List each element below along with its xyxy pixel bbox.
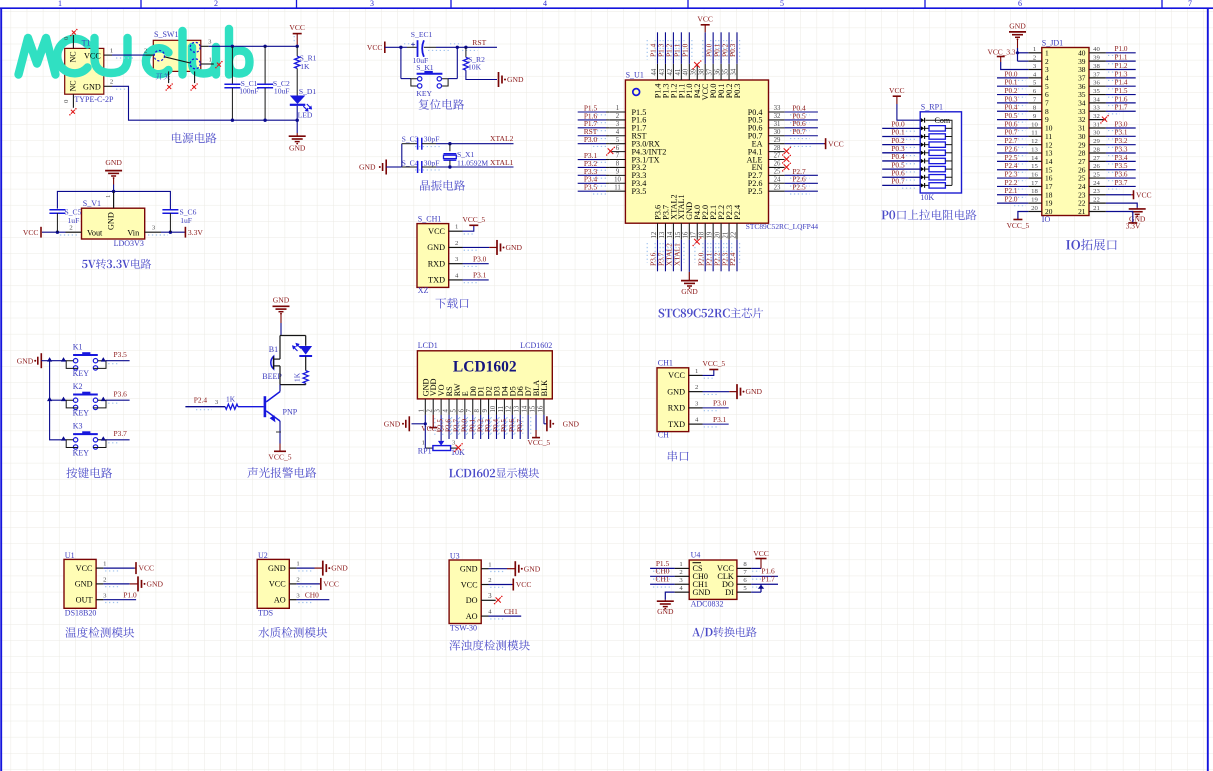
U1 pin 18 P2.0: [695, 205, 710, 271]
svg-text:GND: GND: [507, 75, 524, 84]
JD1 pin 7: [997, 95, 1049, 107]
svg-text:14: 14: [1031, 155, 1038, 162]
U1 pin 7 P3.1/TX: [578, 151, 660, 164]
JD1 pin 6: [997, 87, 1049, 99]
svg-text:P0.4: P0.4: [1005, 104, 1018, 112]
svg-text:P3.6: P3.6: [114, 389, 128, 398]
ground GND JD1 top: [1009, 22, 1028, 62]
svg-text:CH1: CH1: [504, 607, 518, 616]
U3 pin 4 AO net CH1: [481, 607, 521, 619]
power VCC LDO: [23, 227, 41, 238]
JD1 pin 32: [1078, 113, 1109, 124]
svg-text:P2.3: P2.3: [1005, 170, 1018, 178]
U1 pin 36 P0.1: [711, 32, 726, 98]
svg-text:P0.7: P0.7: [891, 177, 905, 186]
svg-text:B1: B1: [269, 345, 278, 354]
svg-text:VCC: VCC: [76, 564, 93, 573]
key K1: [61, 342, 106, 378]
U1 pin 1 P1.5: [578, 103, 647, 116]
wire LCD pin 10 net P0.3: [482, 415, 499, 439]
JD1 pin 36: [1078, 79, 1136, 91]
svg-text:18: 18: [1031, 188, 1038, 195]
svg-text:P3.0: P3.0: [473, 254, 487, 263]
U4 pin 6 DO wire: [737, 575, 778, 587]
CH1 pin 1 VCC wire: [689, 368, 714, 378]
JD1 pin 13: [997, 145, 1053, 157]
U1 pin 12 P3.6: [647, 205, 662, 271]
JD1 pin 19: [997, 196, 1053, 208]
svg-text:3: 3: [435, 409, 442, 413]
svg-text:GND: GND: [524, 564, 541, 573]
IC U1 DS18B20 body: [64, 551, 96, 618]
svg-text:P1.0: P1.0: [681, 43, 690, 57]
svg-text:P3.0: P3.0: [584, 135, 598, 144]
svg-text:11: 11: [1031, 130, 1037, 137]
U1 pin 21 P2.3: [719, 205, 734, 271]
wire LCD pin 9 net P0.2: [474, 415, 491, 439]
capacitor S_C4 30pF: [402, 159, 440, 173]
wire K1 to P3.5: [106, 350, 130, 364]
svg-text:K1: K1: [73, 342, 83, 351]
LCD pin 11 D4: [498, 386, 510, 415]
svg-text:VCC_5: VCC_5: [1007, 221, 1030, 230]
title 浑浊度检测模块: [449, 640, 529, 651]
svg-text:19: 19: [707, 231, 714, 238]
svg-text:VCC: VCC: [697, 15, 713, 24]
svg-text:P2.5: P2.5: [1005, 154, 1018, 162]
capacitor S_EC1 10uF polarized: [411, 30, 433, 65]
svg-text:BEEP: BEEP: [262, 372, 282, 381]
svg-text:P0.7: P0.7: [1005, 129, 1018, 137]
svg-text:17: 17: [691, 231, 698, 238]
wire LCD pin 5 net P2.6: [443, 415, 460, 439]
wire LCD BLK right: [544, 415, 547, 424]
svg-text:27: 27: [1093, 155, 1100, 162]
wire LCD pin 14 net P0.7: [514, 415, 531, 439]
svg-text:P3.5: P3.5: [114, 350, 128, 359]
svg-text:35: 35: [722, 68, 729, 75]
JD1 pin 35: [1078, 87, 1136, 99]
power VCC chip top: [697, 15, 713, 33]
junction: [1016, 51, 1019, 54]
svg-text:GND: GND: [693, 588, 711, 597]
svg-text:2: 2: [69, 224, 72, 231]
svg-text:TXD: TXD: [668, 420, 685, 429]
svg-text:100nF: 100nF: [239, 87, 258, 96]
svg-text:GND: GND: [75, 580, 93, 589]
resistor base 1K: [185, 395, 263, 410]
svg-text:29: 29: [774, 137, 781, 144]
ground GND: [497, 240, 522, 255]
svg-text:TXD: TXD: [428, 276, 445, 285]
junction: [424, 422, 427, 425]
svg-text:8: 8: [474, 409, 481, 413]
U1 pin 10 P3.4: [578, 175, 647, 188]
U1 pin 14 XTAL2: [663, 194, 678, 271]
wire LCD GND left: [412, 415, 426, 424]
JD1 pin 1: [1028, 46, 1049, 57]
svg-text:2: 2: [296, 577, 299, 584]
junction: [56, 231, 59, 234]
title 按键电路: [66, 467, 112, 478]
title STC89C52RC主芯片: [659, 308, 764, 318]
JD1 pin 8: [997, 104, 1049, 116]
svg-text:3: 3: [488, 592, 492, 600]
svg-text:4: 4: [543, 0, 547, 8]
junction: [112, 190, 115, 193]
JD1 pin 33: [1078, 104, 1136, 116]
svg-text:P2.5: P2.5: [748, 187, 763, 196]
U1 pin 8 P3.2: [578, 159, 647, 172]
svg-text:P1.0: P1.0: [1115, 45, 1128, 53]
LCD pin 10 D3: [490, 386, 502, 415]
svg-text:P0.0: P0.0: [1005, 70, 1018, 78]
svg-text:XTAL2: XTAL2: [490, 134, 514, 143]
JD1 pin 12: [997, 137, 1053, 149]
svg-text:K2: K2: [73, 382, 83, 391]
ground GND LCD right: [547, 416, 580, 431]
RP1 resistor pin 4: [882, 136, 952, 148]
svg-text:P0.2: P0.2: [476, 419, 484, 432]
U1 pin 35 P0.2: [719, 32, 734, 98]
svg-text:GND: GND: [17, 356, 34, 365]
svg-text:28: 28: [774, 145, 781, 152]
svg-text:P0.1: P0.1: [1005, 79, 1018, 87]
svg-text:37: 37: [1093, 71, 1100, 78]
JD1 pin 20: [1028, 205, 1052, 216]
svg-text:P3.0: P3.0: [713, 399, 727, 408]
U1 pin 1 VCC vcc VCC: [96, 561, 154, 574]
switch S_SW1 contacts: [144, 30, 200, 69]
svg-text:P1.7: P1.7: [1115, 104, 1128, 112]
wire LCD VO to potentiometer: [438, 415, 444, 446]
svg-text:CH1: CH1: [656, 575, 670, 584]
svg-text:32: 32: [1093, 113, 1100, 120]
S_CH1 pin 1 VCC wire: [449, 224, 474, 234]
no-ERC cross T1 top: [70, 29, 78, 37]
JD1 pin 18: [997, 187, 1053, 199]
svg-text:2: 2: [1033, 55, 1036, 62]
svg-text:P3.7: P3.7: [1115, 179, 1128, 187]
svg-text:P0.6: P0.6: [1005, 120, 1018, 128]
svg-text:CH0: CH0: [305, 591, 319, 600]
U1 pin 22 P2.4: [727, 205, 742, 271]
svg-text:U4: U4: [691, 551, 701, 560]
LCD pin 9 D2: [482, 386, 494, 415]
switch bottom pin B: [194, 71, 196, 83]
svg-text:P0.2: P0.2: [1005, 87, 1018, 95]
resistor network S_RP1 10K body: [920, 103, 961, 203]
svg-text:2: 2: [488, 577, 491, 584]
svg-text:P3.4: P3.4: [1115, 154, 1128, 162]
svg-text:P2.4: P2.4: [194, 396, 208, 405]
svg-text:2: 2: [679, 569, 682, 576]
V1 pin 2 Vout: [42, 224, 82, 235]
svg-text:P0.3: P0.3: [733, 84, 742, 99]
svg-text:30pF: 30pF: [424, 134, 440, 143]
U4 pin 5 DI wire: [737, 584, 764, 592]
svg-text:1uF: 1uF: [68, 216, 80, 225]
svg-text:16: 16: [1031, 171, 1038, 178]
svg-text:1: 1: [488, 561, 491, 568]
svg-text:GND: GND: [106, 212, 115, 230]
svg-text:AO: AO: [466, 612, 478, 621]
no-ERC cross: [190, 83, 198, 91]
wire LCD pin 13 net P0.6: [506, 415, 523, 439]
svg-text:P3.5: P3.5: [632, 187, 647, 196]
no-ERC cross T1 bottom: [69, 108, 77, 116]
junction: [263, 45, 266, 48]
svg-text:26: 26: [1093, 163, 1100, 170]
U1 pin 34 P0.3: [727, 32, 742, 98]
svg-text:LDO3V3: LDO3V3: [114, 239, 144, 248]
U3 pin 3 DO nc: [481, 592, 502, 604]
ground GND LCD left: [384, 416, 410, 431]
svg-text:1: 1: [296, 561, 299, 568]
MCUclub logo: [19, 29, 250, 75]
JD1 pin 23: [1078, 188, 1152, 199]
svg-text:16: 16: [537, 405, 544, 412]
svg-text:9: 9: [616, 169, 620, 176]
title 声光报警电路: [247, 467, 316, 478]
key S_K1: [401, 47, 457, 98]
svg-text:LCD1602: LCD1602: [520, 341, 552, 350]
U1 pin 38 VCC: [699, 32, 711, 100]
svg-text:10: 10: [614, 176, 621, 183]
key K2: [61, 382, 106, 418]
JD1 pin 17: [997, 179, 1053, 191]
JD1 pin 40: [1078, 45, 1136, 57]
RP1 resistor pin 9: [882, 177, 952, 189]
svg-text:P0.1: P0.1: [468, 419, 476, 432]
svg-text:VCC: VCC: [889, 86, 905, 95]
capacitor S_C1 100nF: [224, 46, 258, 120]
svg-text:P2.0: P2.0: [1005, 196, 1018, 204]
wire emitter to VCC_5: [276, 421, 281, 451]
svg-text:15: 15: [675, 231, 682, 238]
svg-text:P2.1: P2.1: [1005, 187, 1018, 195]
U1 pin 41 P1.1: [671, 32, 686, 98]
JD1 pin 15: [997, 162, 1053, 174]
svg-text:6: 6: [616, 145, 620, 152]
svg-text:24: 24: [774, 176, 781, 183]
U1 pin 26 EN: [752, 161, 791, 173]
wire LCD pin 11 net P0.4: [490, 415, 507, 439]
svg-text:DI: DI: [725, 588, 734, 597]
IC S_U1 STC89C52RC_LQFP44 body: [625, 70, 818, 231]
wire XTAL1: [415, 167, 514, 170]
RP1 resistor pin 7: [882, 160, 952, 172]
svg-text:P3.3: P3.3: [1115, 145, 1128, 153]
power VCC_5 LCD BLA: [528, 415, 551, 447]
svg-text:RP1: RP1: [418, 446, 432, 455]
svg-text:P1.2: P1.2: [1115, 62, 1128, 70]
svg-text:P2.7: P2.7: [1005, 137, 1018, 145]
ground GND keys: [17, 353, 50, 368]
U1 pin 15 XTAL1: [671, 194, 686, 271]
svg-text:K3: K3: [73, 421, 83, 430]
svg-text:1: 1: [58, 0, 62, 8]
svg-text:VCC: VCC: [1136, 190, 1152, 199]
svg-text:VCC: VCC: [23, 228, 39, 237]
U2 pin 3 AO net CH0: [289, 591, 329, 603]
title 下载口: [435, 298, 468, 309]
svg-text:P3.1: P3.1: [473, 271, 487, 280]
svg-text:VCC_5: VCC_5: [268, 453, 291, 462]
U4 pin 1 wire P1.5: [650, 559, 689, 571]
title LCD1602显示模块: [449, 468, 539, 478]
svg-text:17: 17: [1031, 180, 1038, 187]
LCD module LCD1 body: [417, 341, 552, 399]
transistor Q1 PNP: [265, 385, 298, 422]
connector S_CH1 body: [417, 215, 449, 296]
junction: [231, 119, 234, 122]
svg-text:GND: GND: [268, 564, 286, 573]
svg-text:13: 13: [659, 231, 666, 238]
junction: [47, 357, 52, 361]
U1 pin 33 P0.4: [748, 103, 818, 116]
ground GND below LED: [289, 136, 306, 152]
svg-text:CH1: CH1: [658, 359, 673, 368]
junction: [399, 46, 402, 49]
svg-text:P3.2: P3.2: [1115, 137, 1128, 145]
svg-text:3.3V: 3.3V: [1126, 222, 1141, 231]
svg-text:GND: GND: [657, 607, 674, 616]
svg-text:U3: U3: [450, 551, 460, 560]
power VCC reset: [367, 42, 401, 54]
svg-text:VCC: VCC: [269, 580, 286, 589]
power VCC_5 alarm: [268, 451, 291, 461]
svg-text:34: 34: [730, 68, 737, 75]
svg-text:21: 21: [722, 232, 729, 239]
svg-text:PNP: PNP: [283, 408, 298, 417]
wire T1 pin1 to switch: [112, 55, 145, 58]
svg-text:14: 14: [522, 405, 529, 412]
wire XTAL2: [415, 144, 514, 147]
svg-text:P3.7: P3.7: [114, 429, 128, 438]
S_CH1 pin 3 RXD wire: [449, 254, 489, 266]
svg-text:VCC: VCC: [428, 227, 445, 236]
svg-text:1: 1: [110, 47, 113, 54]
svg-text:1K: 1K: [293, 372, 302, 382]
svg-text:KEY: KEY: [73, 409, 90, 418]
LCD pin 15 BLA: [529, 380, 541, 415]
svg-text:20: 20: [1031, 205, 1038, 212]
svg-text:VCC_5: VCC_5: [703, 359, 726, 368]
svg-text:GND: GND: [681, 287, 698, 296]
T1 pin 0 top: [63, 35, 73, 48]
U1 pin 30 P0.7: [748, 127, 818, 140]
svg-text:38: 38: [1093, 63, 1100, 70]
wire LCD pin 7 net P0.0: [459, 415, 476, 439]
junction: [231, 45, 234, 48]
svg-text:S_C4: S_C4: [402, 159, 419, 168]
svg-text:P2.4: P2.4: [1005, 162, 1018, 170]
svg-text:13: 13: [514, 405, 521, 412]
svg-text:29: 29: [1093, 138, 1100, 145]
svg-text:10K: 10K: [920, 193, 934, 202]
svg-text:3: 3: [370, 0, 374, 8]
JD1 pin 30: [1078, 129, 1136, 141]
no-ERC cross: [165, 83, 173, 91]
JD1 pin 3: [1028, 63, 1049, 74]
svg-text:P0.7: P0.7: [516, 419, 524, 432]
svg-text:P0.0: P0.0: [460, 419, 468, 432]
IC U2 TDS body: [257, 551, 289, 618]
svg-text:1: 1: [1033, 46, 1036, 53]
junction: [47, 397, 52, 401]
svg-text:P3.5: P3.5: [1115, 162, 1128, 170]
svg-text:P1.7: P1.7: [761, 575, 775, 584]
svg-text:1uF: 1uF: [180, 216, 192, 225]
IC U3 TSW-30 body: [449, 551, 481, 632]
junction: [448, 142, 451, 145]
LCD pin 12 D5: [506, 386, 518, 415]
svg-text:KEY: KEY: [416, 89, 432, 98]
svg-text:6: 6: [458, 409, 465, 413]
title 温度检测模块: [65, 627, 134, 638]
JD1 pin 37: [1078, 70, 1136, 82]
switch S_SW1 body: [153, 40, 201, 71]
title IO拓展口: [1066, 239, 1117, 251]
svg-text:4: 4: [442, 409, 449, 413]
capacitor S_C6 1uF: [162, 207, 196, 232]
U1 pin 9 P3.3: [578, 167, 647, 180]
svg-text:S_JD1: S_JD1: [1042, 39, 1063, 48]
svg-text:S_K1: S_K1: [416, 63, 434, 72]
JD1 pin 31: [1078, 120, 1136, 132]
svg-text:5: 5: [780, 0, 784, 8]
JD1 pin 34: [1078, 95, 1136, 107]
svg-text:1: 1: [679, 561, 682, 568]
svg-text:VCC_3.3: VCC_3.3: [988, 48, 1016, 57]
svg-text:VCC: VCC: [84, 51, 101, 60]
LCD pin 6 E: [458, 391, 470, 415]
svg-text:1: 1: [209, 56, 212, 63]
JD1 pin 24: [1078, 179, 1136, 191]
svg-text:P1.1: P1.1: [1115, 54, 1128, 62]
svg-text:2: 2: [103, 577, 106, 584]
svg-text:ADC0832: ADC0832: [691, 600, 724, 609]
svg-text:18: 18: [699, 231, 706, 238]
svg-text:S_V1: S_V1: [83, 199, 101, 208]
svg-text:LED: LED: [298, 111, 313, 120]
power VCC pullup: [889, 86, 920, 120]
svg-text:RST: RST: [472, 38, 486, 47]
svg-text:GND: GND: [506, 243, 523, 252]
svg-text:11: 11: [498, 406, 505, 413]
resistor S_R2 10K: [463, 46, 497, 80]
svg-text:P2.5: P2.5: [792, 183, 806, 192]
svg-text:LCD1: LCD1: [418, 341, 438, 350]
svg-text:20: 20: [715, 231, 722, 238]
junction: [456, 46, 459, 49]
power VCC_5 JD1 pin20: [1007, 211, 1030, 230]
U4 pin 3 wire CH1: [650, 575, 689, 587]
switch pin 1 stub: [201, 56, 214, 64]
svg-text:27: 27: [774, 153, 781, 160]
svg-text:P2.4: P2.4: [733, 205, 742, 220]
svg-text:35: 35: [1093, 88, 1100, 95]
no-ERC cross switch pin1: [215, 61, 223, 69]
svg-text:40: 40: [683, 68, 690, 75]
svg-text:VCC_5: VCC_5: [463, 215, 486, 224]
svg-text:2: 2: [427, 409, 434, 413]
svg-text:GND: GND: [359, 163, 376, 172]
U1 pin 2 GND gnd GND: [96, 576, 163, 591]
svg-text:15: 15: [1031, 163, 1038, 170]
U1 pin 2 P1.6: [578, 111, 647, 124]
